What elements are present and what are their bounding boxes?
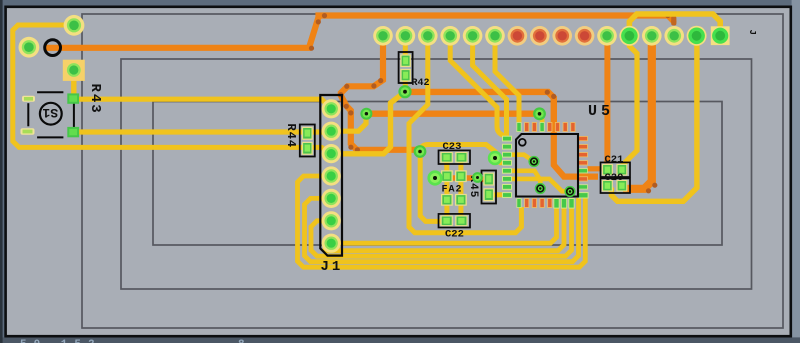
- wire yellow net13: S1 pad 4 through R44 to J1 pad 2: [73, 114, 366, 133]
- via V9 inside U5: [535, 183, 546, 194]
- svg-text:R43: R43: [87, 84, 103, 115]
- pad P9 red: [552, 26, 572, 46]
- window frame left dark edge: [0, 0, 3, 343]
- C20 pad 2: [616, 180, 627, 192]
- svg-text:C20: C20: [605, 172, 624, 184]
- connector J1 outline: [320, 95, 342, 256]
- pad R43-1 round: [64, 15, 85, 36]
- via V5: [533, 107, 546, 120]
- wire yellow bus line 5: J1 pad 4 riser outer: [298, 176, 586, 267]
- square pad P16: [711, 26, 730, 45]
- pad P14: [664, 26, 684, 46]
- wire yellow bus line 1: J1 pad 7 to U5 bottom pin 6: [331, 206, 556, 243]
- resistor R45 outline: [482, 171, 497, 204]
- wire yellow bus line 3: J1 pad 5 riser to U5 bottom pin 8: [311, 206, 572, 256]
- board outline rect C: [153, 102, 722, 246]
- wire yellow net16: top pad P3 down to U5 bottom pin 1: [409, 33, 521, 233]
- wire orange net9: U5 right pin stub to C21 pad 1: [588, 166, 602, 171]
- mounting hole ring: [45, 40, 61, 56]
- C23 pad 2: [455, 152, 467, 163]
- svg-text:J1: J1: [321, 259, 344, 275]
- wire yellow net10b: tee up to via V1: [331, 92, 405, 154]
- via V7: [488, 151, 502, 165]
- wire yellow bus line 4: J1 pad 4 riser to U5 right pin 8: [305, 198, 579, 262]
- pad left round: [19, 37, 40, 58]
- R45 pad 2: [483, 188, 494, 201]
- via V6: [427, 170, 442, 185]
- wire yellow U5 interior 4: via V5 stub to top pin 4: [540, 114, 543, 127]
- wire yellow net15: R42 bottom pad to via V1: [403, 75, 408, 92]
- J1 pad 1: [322, 99, 341, 118]
- wire yellow net10: pad R43-1 left and down to long horizontal: [13, 25, 331, 153]
- svg-text:FA2: FA2: [442, 185, 463, 196]
- IC U5 body outline: [516, 134, 578, 197]
- wire yellow net19: top pad P6 to U5 top pin 1: [495, 33, 519, 123]
- svg-text:R44: R44: [284, 124, 298, 149]
- svg-text:8: 8: [238, 339, 245, 343]
- pad P8 red: [530, 26, 550, 46]
- S1 pad 4: [67, 127, 79, 137]
- resistor R44 outline: [300, 125, 315, 157]
- wire yellow net26a: [458, 176, 463, 221]
- wire orange net7: U5 interior to right side: [554, 128, 598, 177]
- junction dots on orange bends: [309, 13, 677, 194]
- J1 pad 6: [322, 211, 341, 230]
- wire yellow U5 interior 1: left pin 3 to via V8: [508, 155, 534, 162]
- pad P3: [418, 26, 438, 46]
- J1 pad 7: [322, 234, 341, 253]
- via V2: [360, 108, 372, 120]
- ferrite FA2 pad 4: [455, 194, 467, 206]
- switch S1 circle: [40, 103, 62, 125]
- wire orange net5: top pad P11 down to C21 pad 1: [604, 33, 610, 164]
- wire orange net3: via V2 to via V5: [366, 110, 539, 116]
- wire yellow net22: top pad P15 down around to C20 pad 1: [611, 33, 697, 201]
- S1 pad 1: [22, 96, 35, 102]
- S1 pad 3: [67, 93, 79, 103]
- wire yellow net17: top pad P4 to U5 left pin 1: [450, 33, 506, 137]
- R42 pad 1: [400, 54, 411, 67]
- wire yellow net25: C23 pads down to FA2 pads: [444, 157, 449, 171]
- pad P15 selected: [687, 26, 707, 46]
- wire yellow net27: via V6 stub to FA2 pad: [435, 176, 443, 181]
- svg-text:C22: C22: [445, 229, 464, 241]
- pad P6: [485, 26, 505, 46]
- wire yellow net18: top pad P5 to U5 pin row: [473, 33, 507, 137]
- J1 pad 5: [322, 189, 341, 208]
- pad P10 red: [575, 26, 595, 46]
- svg-text:S1: S1: [42, 105, 58, 120]
- svg-text:U5: U5: [588, 103, 614, 120]
- resistor R42 outline: [399, 52, 413, 83]
- wire yellow net12: S1 pad 3 to J1 pad 1: [73, 99, 331, 109]
- wire yellow U5 interior 3: left pin 6 to via V10: [508, 179, 570, 191]
- ferrite FA2 pad 2: [455, 170, 467, 182]
- R45 pad 1: [483, 173, 494, 186]
- ferrite FA2 pad 1: [441, 170, 453, 182]
- svg-text:R42: R42: [412, 78, 430, 89]
- C22 pad 1: [440, 215, 452, 226]
- square pad R43-2: [63, 60, 85, 81]
- wire yellow net24: via V3 down to C22 pad 1: [420, 152, 441, 222]
- C21 pad 2: [616, 164, 627, 176]
- pad P5: [463, 26, 483, 46]
- wire yellow net28: R45 pad 2 to U5 left pin 8: [489, 192, 504, 197]
- via V3: [414, 145, 427, 158]
- switch S1 outline: [28, 92, 74, 137]
- pad P12 selected: [619, 26, 639, 46]
- C21 pad 1: [602, 164, 613, 176]
- wire yellow net20: top pad P12 down to C21 pad 2: [622, 33, 637, 166]
- R44 pad 1: [302, 127, 313, 140]
- ferrite FA2 pad 3: [441, 194, 453, 206]
- via V4: [472, 172, 483, 183]
- wire yellow net11: square pad R43-2 down to S1 pad: [71, 70, 76, 99]
- IC U5 right pins: [579, 136, 589, 198]
- R44 pad 2: [302, 142, 313, 155]
- pad P11: [597, 26, 617, 46]
- wire yellow net25a: [458, 157, 463, 171]
- IC U5 bottom pins: [517, 199, 574, 209]
- C23 pad 1: [440, 152, 452, 163]
- IC U5 top pins: [517, 123, 575, 132]
- window frame bottom band: [0, 337, 800, 343]
- capacitor C22 outline: [439, 214, 471, 228]
- via V10 inside U5: [564, 186, 575, 197]
- via V1: [398, 85, 411, 98]
- window frame right band: [792, 0, 800, 343]
- wire yellow net26: FA2 columns to C22 pads: [444, 176, 449, 221]
- wire orange net1: hole to top-right: [45, 16, 674, 48]
- S1 pad 2: [21, 128, 35, 134]
- R42 pad 2: [400, 69, 411, 82]
- top connector pad row P1-P15: [373, 26, 706, 46]
- J1 pad 2: [322, 122, 341, 141]
- via V8 inside U5: [528, 156, 539, 167]
- wire yellow U5 interior 2: left pin 5 to via V9: [508, 171, 540, 187]
- C20 pad 1: [602, 180, 613, 192]
- pad P7 red: [508, 26, 528, 46]
- wire yellow net21: top arc pad P12 to square pad P16: [629, 14, 720, 36]
- pad P1: [373, 26, 393, 46]
- wire yellow net23: via V3 to via V7 to U5 left pin 4: [420, 145, 504, 163]
- wire yellow bus line 2: J1 pad 6 riser to U5 bottom pin 7: [325, 206, 564, 251]
- svg-text:J: J: [747, 30, 757, 35]
- wire yellow net14: R42 top pad to top pad P2: [403, 33, 408, 56]
- capacitor C20 outline: [601, 178, 631, 193]
- IC U5 pin1 mark: [519, 139, 526, 146]
- pad P13: [642, 26, 662, 46]
- IC U5 left pins: [503, 136, 512, 197]
- board outline rect B: [121, 59, 752, 289]
- pad P4: [440, 26, 460, 46]
- capacitor C23 outline: [439, 150, 471, 164]
- pad P2: [396, 26, 416, 46]
- wire orange net8: via V6 through FA2 to R45 pad 1: [435, 178, 489, 179]
- wire orange net4: via V1 to U5 top pin 5: [405, 92, 554, 128]
- C22 pad 2: [455, 215, 467, 226]
- svg-text:50.152: 50.152: [20, 339, 102, 343]
- capacitor C21 outline: [601, 162, 631, 177]
- svg-text:C21: C21: [605, 154, 624, 166]
- J1 pad 4: [322, 166, 341, 185]
- J1 pad 3: [322, 144, 341, 163]
- wire orange net6: top pad P13 down to C20 pad 2: [623, 33, 652, 189]
- svg-text:C23: C23: [443, 141, 462, 153]
- wire orange net2: pad P1 down around J1 to via V3: [341, 33, 420, 150]
